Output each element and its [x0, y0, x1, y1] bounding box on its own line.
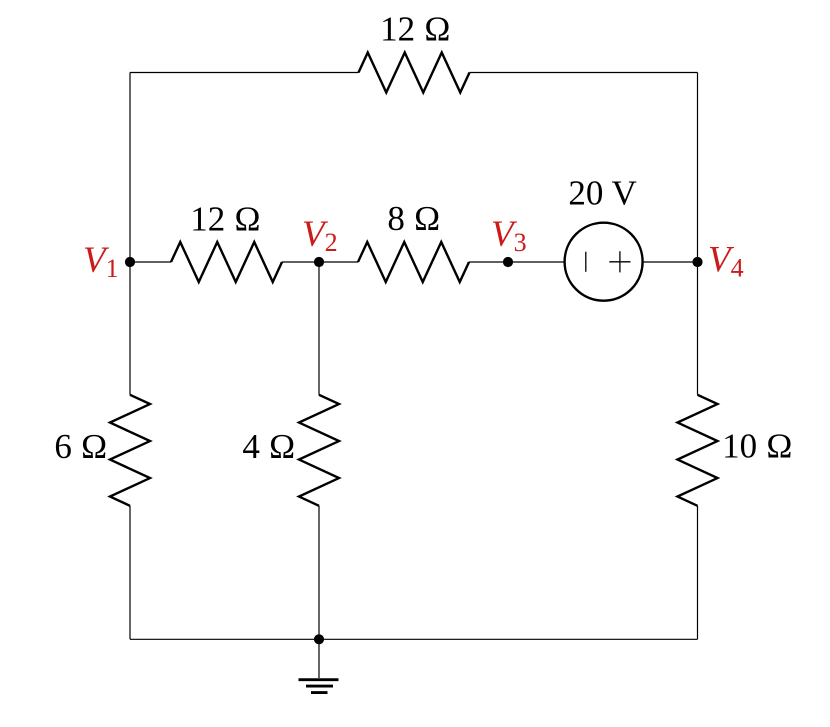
- resistor 8 ohm: [358, 242, 469, 282]
- wire: 4 ohm down to bottom wire: [318, 506, 320, 640]
- wire: 12 ohm middle to V2: [282, 261, 319, 263]
- wire: voltage source to V4: [643, 261, 698, 263]
- voltage source minus terminal bar: [585, 252, 587, 272]
- svg-text:4 Ω: 4 Ω: [242, 427, 295, 466]
- wire: top horizontal right segment: [470, 72, 698, 74]
- svg-text:V1: V1: [83, 240, 119, 283]
- wire: right vertical lower segment: [697, 506, 699, 640]
- ground symbol bars: [299, 678, 339, 681]
- svg-text:12 Ω: 12 Ω: [380, 10, 451, 49]
- svg-text:6 Ω: 6 Ω: [54, 427, 107, 466]
- node dot V4: [692, 257, 702, 267]
- svg-text:V2: V2: [302, 214, 338, 257]
- wire: left vertical upper segment (V1 up to top-left corner): [129, 73, 131, 395]
- svg-text:V3: V3: [491, 214, 527, 257]
- node dot V3: [503, 257, 513, 267]
- wire: left vertical lower segment: [129, 506, 131, 640]
- svg-text:8 Ω: 8 Ω: [387, 199, 440, 238]
- wire: top horizontal left segment: [130, 72, 359, 74]
- wire: V2 to 8 ohm resistor: [319, 261, 358, 263]
- wire: ground stub: [318, 639, 320, 678]
- node dot ground: [314, 634, 324, 644]
- node dot V1: [125, 257, 135, 267]
- resistor 10 ohm (right): [678, 395, 718, 506]
- svg-text:12 Ω: 12 Ω: [190, 199, 261, 238]
- svg-text:10 Ω: 10 Ω: [722, 427, 793, 466]
- wire: right vertical upper segment (top-right corner down to 10 ohm): [697, 73, 699, 395]
- svg-text:V4: V4: [708, 239, 744, 282]
- voltage source plus sign: [609, 251, 630, 272]
- svg-text:20 V: 20 V: [568, 174, 636, 213]
- resistor 12 ohm (middle): [171, 242, 282, 282]
- resistor 12 ohm (top): [359, 53, 470, 93]
- voltage source V 20V circle: [565, 223, 643, 301]
- wire: V1 to 12 ohm middle resistor: [130, 261, 171, 263]
- wire: middle vertical V2 down to 4 ohm: [318, 262, 320, 395]
- wire: 8 ohm to V3: [469, 261, 508, 263]
- node dot V2: [314, 257, 324, 267]
- wire: V3 to voltage source: [508, 261, 565, 263]
- resistor 4 ohm (middle): [299, 395, 339, 506]
- wire: bottom horizontal: [130, 638, 698, 640]
- resistor 6 ohm (left): [110, 395, 150, 506]
